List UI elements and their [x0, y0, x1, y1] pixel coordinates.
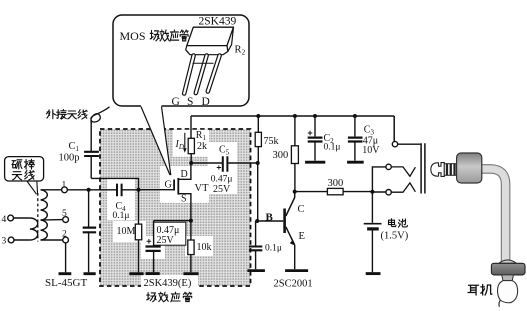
jack contact circle lower	[386, 190, 391, 195]
svg-text:10M: 10M	[117, 226, 136, 237]
ground bar 10M	[129, 272, 143, 275]
external antenna hook	[91, 107, 110, 124]
label FET chinese below box	[147, 292, 192, 302]
node drain junction	[189, 161, 193, 165]
svg-text:B: B	[266, 211, 274, 223]
callout pointer wedge to FET	[141, 106, 171, 175]
svg-text:S: S	[187, 96, 193, 108]
svg-text:D: D	[181, 169, 188, 180]
svg-text:100p: 100p	[59, 153, 80, 164]
svg-text:E: E	[299, 231, 305, 242]
node tank junction	[87, 188, 91, 192]
ground bar terminal 2	[59, 272, 72, 275]
wire coil top to terminal 1	[41, 189, 62, 191]
svg-text:300: 300	[273, 150, 289, 161]
ground bar bypass cap	[146, 272, 160, 275]
wire antenna jog over C4	[91, 178, 138, 189]
bar antenna label bubble	[5, 157, 44, 195]
wire down to base node	[257, 163, 259, 221]
inductor secondary winding	[41, 190, 48, 240]
wire tank cap to ground	[88, 233, 90, 273]
wire tip to plug bar	[398, 143, 421, 145]
earphone plug rings	[444, 164, 456, 176]
wire gate	[139, 189, 174, 191]
node gate junction	[137, 188, 141, 192]
wire coil bottom to terminal 2	[41, 239, 63, 241]
wire antenna to C1	[90, 123, 92, 152]
svg-text:1: 1	[62, 181, 67, 191]
capacitor C5 0.47u	[217, 156, 228, 171]
wire source to bypass cap	[154, 220, 191, 222]
svg-text:300: 300	[328, 178, 344, 189]
jack plug bars	[421, 143, 425, 193]
ground bar battery	[366, 272, 381, 275]
ferrite core dashed	[37, 193, 39, 242]
svg-text:0.1μ: 0.1μ	[265, 243, 282, 253]
svg-text:C1: C1	[69, 141, 80, 153]
capacitor source bypass 0.47u 25V	[146, 221, 161, 273]
svg-text:2SK439(E): 2SK439(E)	[144, 278, 192, 289]
wire terminal 2 to ground	[65, 243, 67, 272]
terminal 4	[8, 215, 14, 221]
svg-text:G: G	[165, 179, 172, 190]
node 75k bottom	[256, 161, 260, 165]
node base junction	[255, 219, 259, 223]
svg-text:0.1μ: 0.1μ	[113, 211, 130, 221]
svg-text:25V: 25V	[157, 235, 175, 246]
wire R1 top feed	[190, 116, 192, 138]
capacitor C3 47u	[348, 116, 363, 161]
terminal 2	[63, 237, 69, 243]
callout box MOS FET	[113, 15, 249, 106]
capacitor C1 100p	[84, 152, 99, 156]
wire coil to C4	[67, 189, 116, 191]
resistor 75k	[255, 116, 261, 163]
wire C1 to gate jog	[90, 156, 92, 178]
svg-text:2SC2001: 2SC2001	[274, 278, 313, 289]
jack switch leaf lower	[391, 183, 415, 192]
node rail C2 tap	[313, 114, 317, 118]
wire tank cap branch	[88, 190, 90, 227]
node rail 300 tap	[293, 114, 297, 118]
node rail C3 tap	[353, 114, 357, 118]
earphone neck	[502, 275, 514, 281]
svg-text:10k: 10k	[197, 242, 212, 253]
ground bar C3	[347, 161, 364, 164]
wire C4 to gate node	[122, 189, 138, 191]
resistor 300 vertical	[291, 116, 298, 192]
node rail 75k tap	[256, 114, 260, 118]
wire to base	[257, 220, 283, 222]
label battery	[381, 219, 409, 242]
jack contact circle upper	[386, 164, 391, 169]
node jack tip terminal	[392, 141, 397, 146]
svg-text:5: 5	[62, 209, 67, 219]
earbud cord tail	[499, 300, 501, 307]
terminal 5	[63, 217, 69, 223]
svg-text:D: D	[202, 96, 210, 108]
svg-text:SL-45GT: SL-45GT	[45, 277, 87, 289]
wire top rail	[191, 115, 394, 117]
jack switch leaf upper	[391, 167, 415, 176]
wire coil tap to terminal 5	[41, 219, 63, 222]
wire C5 to 75k node	[228, 162, 258, 164]
capacitor C2 0.1u	[308, 116, 323, 161]
earphone plug tip	[431, 163, 445, 177]
ground bar C2	[305, 161, 325, 164]
transistor package drawing 2SK439	[184, 27, 233, 93]
svg-text:0.47μ: 0.47μ	[211, 174, 233, 184]
node collector junction	[293, 190, 297, 194]
ground bar tank cap	[84, 272, 96, 275]
transistor Q1 2SC2001	[283, 192, 295, 270]
wire drain to C5	[191, 162, 222, 164]
resistor R1 2k	[188, 138, 194, 153]
current arrow ID	[183, 133, 187, 153]
svg-text:3: 3	[2, 237, 7, 247]
svg-text:MOS: MOS	[120, 29, 146, 43]
label bar antenna	[12, 159, 34, 180]
transistor VT 2SK439 FET symbol	[174, 163, 191, 221]
label external antenna	[46, 110, 87, 120]
capacitor C4 0.1u	[117, 184, 122, 197]
inductor primary winding	[30, 218, 38, 240]
capacitor 0.1u at base	[249, 221, 262, 269]
wire rail corner to jack tip	[393, 116, 395, 141]
ground bar emitter	[285, 269, 308, 272]
svg-text:G: G	[172, 96, 180, 108]
svg-text:VT: VT	[195, 183, 210, 194]
node source junction	[189, 219, 193, 223]
capacitor tank tuning	[83, 228, 96, 233]
svg-text:C: C	[298, 204, 305, 215]
wire jack contacts feed	[372, 167, 385, 192]
svg-text:2k: 2k	[197, 141, 207, 152]
svg-text:S: S	[181, 193, 187, 204]
terminal 3	[8, 237, 14, 243]
label earphone	[468, 284, 492, 295]
package legs G S D	[184, 56, 219, 94]
wire terminal 4 to coil	[13, 217, 30, 219]
resistor 300 horizontal	[295, 188, 373, 194]
svg-text:4: 4	[2, 215, 7, 225]
earphone cable	[481, 169, 506, 261]
svg-text:2SK439: 2SK439	[199, 16, 237, 28]
svg-text:25V: 25V	[213, 184, 231, 195]
wire R1 bottom	[190, 154, 192, 163]
ground bar 10k	[183, 272, 198, 275]
earbud	[498, 281, 518, 303]
svg-text:0.1μ: 0.1μ	[324, 143, 341, 153]
svg-text:10V: 10V	[362, 145, 380, 156]
ground bar base cap	[247, 269, 265, 272]
resistor 10M	[135, 190, 141, 273]
battery B1 1.5V	[364, 192, 382, 272]
earphone disc body	[491, 260, 525, 275]
label MOS FET callout	[120, 29, 189, 43]
terminal 1	[62, 187, 68, 193]
wire terminal 3 to coil	[14, 239, 30, 241]
label bypass cap value box	[154, 222, 186, 246]
svg-text:(1.5V): (1.5V)	[381, 230, 409, 241]
svg-text:75k: 75k	[264, 136, 279, 147]
resistor 10k	[188, 221, 194, 273]
node jack battery junction	[370, 190, 374, 194]
earphone plug body	[457, 153, 482, 183]
svg-text:2: 2	[62, 230, 67, 240]
FET shaded region box	[100, 129, 251, 288]
